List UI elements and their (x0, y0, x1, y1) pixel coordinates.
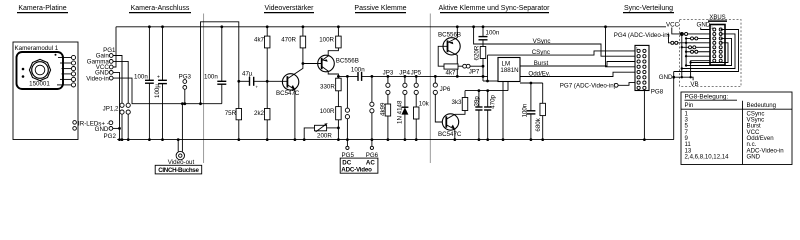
table PG8-Belegung (681, 92, 792, 165)
svg-text:100n: 100n (486, 30, 500, 37)
svg-text:BC547C: BC547C (276, 90, 300, 97)
connector XBUS (710, 25, 725, 66)
ground rail (117, 139, 674, 141)
box DC/AC ADC-Video (340, 158, 378, 174)
svg-text:Video-out: Video-out (168, 159, 195, 166)
jumper JP3 with resistor 4k99 (379, 70, 394, 141)
svg-text:2,4,6,8,10,12,14: 2,4,6,8,10,12,14 (685, 153, 730, 160)
pin GND (95, 70, 113, 77)
svg-text:Aktive Klemme und Sync-Separat: Aktive Klemme und Sync-Separator (439, 5, 551, 12)
wire Odd/Ev. output (520, 71, 635, 78)
heading Kamera-Platine (17, 5, 68, 13)
label XBUS (708, 15, 727, 22)
wire bus row8 (691, 61, 710, 78)
resistor 75R (225, 81, 242, 141)
svg-text:JP1,2: JP1,2 (103, 105, 119, 112)
svg-text:PG4 (ADC-Video-in): PG4 (ADC-Video-in) (614, 32, 670, 39)
capacitor 100n (sync input) (479, 25, 500, 39)
label PG4 (ADC-Video-in) (614, 32, 710, 44)
pin VCC (96, 64, 113, 71)
svg-text:4k7: 4k7 (254, 37, 265, 44)
label PG8 (651, 88, 664, 95)
svg-text:1N 4148: 1N 4148 (396, 100, 403, 124)
svg-text:75R: 75R (225, 110, 237, 117)
module box Kameramodul 1 (13, 42, 78, 140)
svg-text:Passive Klemme: Passive Klemme (354, 5, 406, 12)
wire amp input node (239, 80, 288, 83)
svg-text:PG2: PG2 (104, 133, 117, 140)
jumper JP1 (120, 103, 124, 141)
jumper JP6 (433, 75, 451, 122)
svg-text:150001: 150001 (29, 81, 50, 88)
resistor 470R (281, 25, 305, 47)
transistor Q2 BC556B (318, 48, 359, 78)
svg-text:Sync-Verteilung: Sync-Verteilung (624, 5, 673, 12)
leg to pad PG6 (AC) (370, 75, 374, 146)
potentiometer 200R (303, 123, 339, 141)
wire VCC to XBUS (672, 28, 710, 36)
svg-text:100µ: 100µ (154, 84, 161, 98)
wire xbus loop 3 (685, 38, 732, 66)
resistor 100R (emitter) (319, 25, 341, 47)
pin Video-in (86, 75, 113, 82)
svg-text:Kamera-Platine: Kamera-Platine (18, 5, 66, 12)
resistor 4k7 (clamp base) (444, 64, 463, 77)
svg-text:VB: VB (690, 81, 698, 88)
label GND (xbus top) (697, 22, 711, 29)
wire vertical B (685, 37, 687, 65)
svg-text:CINCH-Buchse: CINCH-Buchse (158, 167, 199, 174)
capacitor C5 100n (clamp coupling) (351, 67, 365, 81)
CINCH jack (176, 151, 184, 159)
wire xbus loop 4 (689, 43, 728, 64)
svg-text:BC547C: BC547C (438, 131, 462, 138)
wire bus row5 (682, 46, 710, 49)
jumper JP4 with diode 1N4148 (396, 70, 410, 141)
resistor 2k2 (254, 81, 270, 141)
heading Passive Klemme (354, 5, 406, 13)
section divider (Passive Klemme | Aktive Klemme) (429, 14, 431, 164)
label JP1,2 (103, 105, 119, 112)
wire VSync output (472, 25, 635, 56)
connector PG1 (103, 47, 116, 54)
wire vertical A (681, 33, 683, 79)
svg-text:VCC: VCC (666, 22, 680, 29)
svg-text:Video-in: Video-in (86, 75, 109, 82)
svg-text:100n: 100n (204, 74, 218, 81)
svg-text:PG7 (ADC-Video-in): PG7 (ADC-Video-in) (560, 83, 616, 90)
wire VCC drop to PG8 pin7 (604, 25, 635, 66)
heading Sync-Verteilung (623, 5, 674, 13)
label CINCH-Buchse (inverted) (155, 165, 202, 174)
IC U1 LM1881N (483, 55, 543, 141)
jumper JP7 (463, 64, 485, 75)
svg-text:BC556B: BC556B (336, 57, 359, 64)
resistor 4k7 (254, 25, 270, 81)
svg-text:2k2: 2k2 (254, 110, 265, 117)
svg-text:GND: GND (659, 74, 673, 81)
label VCC (xbus) (666, 22, 680, 29)
svg-text:10k: 10k (419, 100, 430, 107)
section divider (Kamera-Anschluss | Videoverstaerker) (203, 14, 205, 164)
wire GND bottom link (674, 76, 693, 80)
pads IR-LEDs (78, 120, 113, 127)
resistor 100R (lower) (320, 91, 341, 141)
pad PG3 (179, 74, 192, 106)
svg-text:JP6: JP6 (440, 86, 451, 93)
wire collector to PNP base (302, 62, 322, 65)
wire xbus loop 2 (681, 34, 735, 70)
wire Gamma to JP2 (113, 61, 128, 103)
svg-text:Pin: Pin (685, 102, 694, 109)
svg-text:AC: AC (366, 160, 375, 167)
wire bus row7 (685, 55, 710, 57)
svg-text:Videoverstärker: Videoverstärker (265, 5, 315, 12)
heading Kamera-Anschluss (129, 5, 191, 13)
heading Aktive Klemme und Sync-Separator (439, 5, 551, 13)
svg-text:JP7: JP7 (469, 68, 480, 75)
svg-text:620R: 620R (474, 45, 481, 60)
svg-text:+: + (255, 85, 258, 90)
CINCH jack legs (177, 102, 184, 151)
svg-text:680k: 680k (535, 117, 542, 131)
pad GND (IR) (95, 126, 120, 133)
wire Video-in to video net (113, 78, 222, 104)
label GND (bottom) (659, 74, 673, 81)
wire Gain to JP1 (113, 56, 122, 104)
wire bus row3 (686, 37, 710, 40)
svg-text:1881N: 1881N (500, 67, 518, 74)
wire CSync output (488, 49, 636, 56)
wire clamp line (amp output) (338, 75, 488, 77)
svg-text:PG8: PG8 (651, 88, 664, 95)
wire video bridge over caps (199, 22, 240, 105)
svg-text:100R: 100R (320, 108, 335, 115)
wire GND riser (672, 72, 675, 140)
svg-text:GND: GND (697, 22, 711, 29)
label VB (690, 81, 698, 88)
svg-text:Kameramodul 1: Kameramodul 1 (15, 45, 59, 52)
svg-text:330R: 330R (320, 83, 335, 90)
camera body (17, 52, 64, 89)
svg-text:3k3: 3k3 (452, 99, 463, 106)
svg-text:PG8-Belegung:: PG8-Belegung: (685, 94, 729, 101)
resistor 3k3 (452, 91, 468, 111)
svg-text:4k7: 4k7 (446, 70, 457, 77)
jumper JP2 (126, 103, 130, 141)
svg-text:47µ: 47µ (242, 71, 253, 78)
wire GND to XBUS (701, 28, 710, 30)
wire node line (RSET) (465, 89, 508, 92)
label Video-out (168, 159, 195, 166)
pad PG6 (366, 146, 379, 159)
svg-text:470R: 470R (281, 37, 296, 44)
transistor Q4 BC547C (438, 111, 465, 142)
svg-text:200R: 200R (317, 132, 332, 139)
capacitor C1 100n (decoupling) (134, 25, 154, 141)
connector PG8 (635, 45, 649, 90)
VCC rail (116, 26, 666, 28)
transistor Q3 BC556B (clamp) (438, 25, 461, 77)
svg-text:Bedeutung: Bedeutung (747, 102, 776, 109)
label PG2 (104, 133, 117, 140)
heading Videoverstaerker (264, 5, 314, 13)
wire VCC pin to rail (113, 27, 116, 67)
capacitor 39p (473, 91, 482, 141)
svg-text:Kamera-Anschluss: Kamera-Anschluss (131, 5, 190, 12)
pin Gamma (87, 59, 113, 66)
camera pin stubs (57, 55, 76, 87)
pad PG5 (342, 146, 355, 159)
capacitor C2 100u electrolytic (154, 25, 167, 141)
pin Gain (96, 53, 113, 60)
transistor Q1 BC547C (276, 48, 303, 141)
capacitor 470p (484, 91, 497, 141)
leg to pad PG5 (DC) (345, 75, 349, 147)
resistor 680k (535, 83, 545, 141)
wire bus row6 (686, 50, 710, 53)
capacitor C3 100n (input coupling) (204, 27, 226, 104)
dashed box VB (680, 20, 742, 87)
wire xbus loop 1 (674, 30, 739, 72)
pad PG7 (ADC-Video-in) (560, 83, 635, 90)
capacitor 100n (at LM1881) (521, 83, 535, 141)
wire Burst output (520, 60, 635, 67)
capacitor C4 47u (242, 71, 258, 90)
resistor 330R (320, 76, 341, 90)
svg-text:GND: GND (747, 153, 761, 160)
svg-text:ADC-Video: ADC-Video (341, 167, 372, 174)
wire PG8 GND stub (643, 91, 646, 142)
svg-text:100R: 100R (319, 37, 334, 44)
wire GND pin down to ground rail (113, 72, 121, 141)
jumper JP5 with resistor 10k (411, 70, 430, 141)
svg-text:100n: 100n (134, 73, 148, 80)
svg-text:DC: DC (342, 160, 351, 167)
resistor 620R (474, 40, 486, 78)
IR LED pads on module (73, 121, 77, 131)
